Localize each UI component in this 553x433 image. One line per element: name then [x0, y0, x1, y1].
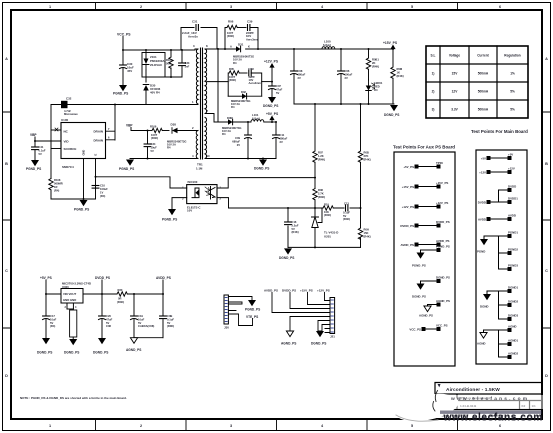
svg-text:Aero3mm: Aero3mm — [246, 37, 259, 41]
svg-text:C17: C17 — [50, 314, 55, 318]
svg-text:B: B — [545, 162, 548, 166]
svg-text:2K: 2K — [372, 61, 375, 65]
ground DGND_PS C17 — [37, 338, 52, 355]
regulation table — [426, 46, 528, 118]
svg-text:J30: J30 — [224, 326, 229, 330]
svg-text:(R4K): (R4K) — [227, 34, 234, 38]
resistor R06 snubber — [224, 20, 246, 51]
svg-text:3): 3) — [432, 108, 435, 112]
ground DGND_PS row3 — [254, 160, 269, 171]
svg-text:AVDD: AVDD — [508, 214, 516, 218]
svg-text:(R4K): (R4K) — [318, 195, 325, 199]
svg-text:Test Points For Main Board: Test Points For Main Board — [471, 129, 528, 134]
wire J21 agnd — [290, 317, 330, 332]
svg-text:PGND2: PGND2 — [508, 248, 518, 252]
svg-text:+12V: +12V — [508, 167, 515, 171]
frame zone ticks right — [542, 112, 551, 328]
node +12V_PS flag — [264, 60, 279, 68]
svg-text:R0H: R0H — [364, 228, 369, 232]
wire U100 left line — [50, 105, 52, 200]
svg-text:DGND_PS: DGND_PS — [279, 256, 294, 260]
svg-text:TP00: TP00 — [436, 161, 443, 165]
svg-text:DVDD_PS: DVDD_PS — [436, 220, 450, 224]
svg-text:C06: C06 — [345, 69, 350, 73]
svg-text:1.2K: 1.2K — [318, 154, 324, 158]
test point AGND main — [477, 325, 519, 360]
ferrite bead regulator gnd — [67, 309, 77, 339]
svg-text:ISO100: ISO100 — [188, 180, 198, 184]
frame zone letters right — [545, 57, 548, 378]
node DVDD_PS — [95, 276, 110, 294]
svg-text:D31: D31 — [238, 43, 244, 47]
svg-text:www.elecfans.com: www.elecfans.com — [443, 413, 543, 424]
wire J30 pin1 to pgnd — [228, 297, 252, 301]
svg-text:D0M: D0M — [227, 116, 233, 120]
wire secondary rail1 +15V — [207, 48, 393, 50]
resistor R100 clamp — [166, 49, 173, 78]
regulator U300 MIC5200 — [61, 282, 91, 310]
svg-text:3: 3 — [230, 5, 232, 9]
svg-text:C39: C39 — [247, 20, 253, 24]
resistor R0H — [358, 228, 370, 240]
svg-text:DGND_PS: DGND_PS — [254, 167, 269, 171]
svg-text:10uF: 10uF — [151, 146, 158, 150]
svg-text:(R4K): (R4K) — [343, 217, 350, 221]
svg-text:AGND1: AGND1 — [508, 339, 519, 343]
node +12V_PS J21 — [317, 288, 330, 300]
svg-text:B: B — [5, 162, 8, 166]
node DVDD_PS J21 — [282, 288, 330, 308]
svg-text:Regulation: Regulation — [504, 54, 521, 58]
svg-text:VCC_PS: VCC_PS — [436, 324, 448, 328]
svg-text:5V: 5V — [167, 321, 170, 325]
node +15V_PS flag — [383, 41, 398, 49]
capacitor C20 — [99, 294, 113, 338]
svg-text:500mA: 500mA — [478, 72, 489, 76]
svg-text:C0M: C0M — [248, 67, 254, 71]
frame zone letters left — [5, 57, 8, 378]
test point DGND main — [480, 286, 519, 322]
svg-text:3: 3 — [230, 424, 232, 428]
svg-text:C32: C32 — [66, 97, 72, 101]
capacitor C33 clamp — [179, 49, 190, 77]
transformer TR1 — [192, 44, 210, 171]
capacitor C0B avdd — [160, 294, 175, 338]
svg-text:DGND1: DGND1 — [508, 286, 519, 290]
svg-text:E: E — [94, 154, 98, 156]
svg-text:DVDD1: DVDD1 — [508, 197, 518, 201]
svg-text:5: 5 — [411, 5, 413, 9]
wire VCC rail to primary — [123, 49, 195, 51]
svg-text:5%: 5% — [510, 90, 515, 94]
test point DGND_PS aux — [412, 276, 450, 299]
wire clamp bottom — [146, 76, 182, 78]
svg-text:10uF: 10uF — [138, 317, 145, 321]
svg-text:C0B: C0B — [167, 314, 172, 318]
svg-text:(R4K): (R4K) — [397, 74, 404, 78]
svg-text:+12V_PS: +12V_PS — [264, 60, 279, 64]
ground PGND_PS opto — [162, 209, 177, 222]
svg-text:(R4): (R4) — [100, 194, 105, 198]
node +15V_PS J21 — [300, 288, 330, 304]
wire opto cathode to ground — [172, 198, 187, 209]
shunt regulator U201 TL431 — [312, 208, 339, 247]
svg-text:(R4K): (R4K) — [324, 213, 331, 217]
resistor R07 — [313, 151, 325, 163]
svg-text:2: 2 — [140, 424, 142, 428]
node VCC_PS — [117, 33, 131, 51]
wire comp ground rail — [288, 246, 361, 248]
svg-text:27K: 27K — [364, 154, 369, 158]
svg-text:PGND_PS: PGND_PS — [245, 308, 260, 312]
test point DVDD_PS aux — [400, 220, 449, 228]
svg-text:U100: U100 — [61, 118, 69, 122]
svg-text:6.8uH: 6.8uH — [323, 43, 331, 47]
svg-text:(R4K): (R4K) — [292, 230, 299, 234]
svg-text:AVDD_PS: AVDD_PS — [436, 239, 450, 243]
svg-text:C: C — [545, 269, 548, 273]
svg-text:10: 10 — [207, 154, 211, 158]
svg-text:1V: 1V — [100, 191, 103, 195]
svg-text:C10: C10 — [100, 184, 105, 188]
svg-text:AVDD: AVDD — [478, 217, 486, 221]
ground PGND_PS under U100 — [74, 198, 89, 212]
test point AVDD main — [478, 214, 516, 222]
svg-text:R10: R10 — [324, 202, 329, 206]
resistor R05 snubber2 — [228, 67, 247, 96]
svg-text:560MR: 560MR — [54, 182, 63, 186]
node +5V_PS flag — [266, 112, 279, 123]
svg-text:AGND_PS: AGND_PS — [126, 348, 141, 352]
svg-text:1:1M: 1:1M — [196, 167, 203, 171]
svg-text:DRAIN: DRAIN — [94, 138, 104, 142]
watermark swoosh — [393, 389, 543, 426]
svg-text:GND: GND — [82, 150, 86, 156]
svg-text:R08: R08 — [318, 188, 323, 192]
ground DGND_PS C20 — [93, 338, 108, 355]
svg-text:A: A — [230, 45, 232, 49]
svg-text:DGND_PS: DGND_PS — [436, 276, 450, 280]
svg-text:Current: Current — [477, 54, 489, 58]
svg-text:DRAIN: DRAIN — [94, 129, 104, 133]
svg-text:DVDD: DVDD — [478, 200, 486, 204]
svg-text:C19: C19 — [138, 314, 143, 318]
svg-text:DGND3: DGND3 — [508, 314, 519, 318]
svg-text:10uF: 10uF — [50, 317, 57, 321]
svg-text:20-DVAC: 20-DVAC — [150, 63, 163, 67]
frame zone ticks bottom — [96, 419, 458, 431]
diode D31 MBR520 — [230, 43, 254, 65]
test point AVDD_PS aux — [401, 239, 450, 247]
svg-text:R4: R4 — [222, 132, 226, 136]
svg-text:(R4K): (R4K) — [151, 136, 158, 140]
svg-text:AGND_PS: AGND_PS — [419, 314, 433, 318]
svg-text:(R0K): (R0K) — [167, 324, 174, 328]
wire row3 ground rail — [207, 158, 276, 160]
test point +12V main — [479, 167, 515, 175]
svg-text:GND GND: GND GND — [63, 298, 76, 302]
frame zone numbers bottom — [49, 424, 501, 428]
svg-text:R4: R4 — [167, 146, 171, 150]
svg-text:2.7K: 2.7K — [318, 191, 324, 195]
capacitor C07 — [269, 82, 283, 97]
test point +12V_PS aux — [402, 201, 449, 209]
ground AGND_PS regulator — [126, 338, 141, 352]
svg-text:K: K — [248, 45, 250, 49]
wire drain line — [51, 104, 195, 106]
svg-text:VBP: VBP — [30, 133, 37, 137]
svg-text:15V: 15V — [452, 72, 459, 76]
wire secondary ground rail — [294, 103, 394, 105]
svg-text:2: 2 — [140, 5, 142, 9]
svg-text:6.8uH: 6.8uH — [252, 116, 260, 120]
resistor R0M — [391, 48, 404, 104]
svg-text:R06: R06 — [228, 20, 234, 24]
wire secondary return vertical — [217, 48, 219, 122]
svg-text:PGND3: PGND3 — [508, 264, 518, 268]
svg-text:0R: 0R — [118, 296, 121, 300]
svg-text:PGND_PS: PGND_PS — [412, 264, 426, 268]
svg-text:DGND_PS: DGND_PS — [412, 295, 426, 299]
svg-text:AGND2: AGND2 — [508, 352, 519, 356]
wire row2 tap — [207, 81, 228, 83]
wire regulator rail — [45, 293, 164, 295]
svg-text:2V: 2V — [298, 76, 301, 80]
svg-text:DVDD_PS: DVDD_PS — [95, 276, 110, 280]
frame zone ticks left — [3, 112, 12, 328]
svg-text:+5V_PS: +5V_PS — [403, 165, 414, 169]
svg-text:AGND_PS: AGND_PS — [281, 342, 296, 346]
svg-text:500mA: 500mA — [478, 108, 489, 112]
capacitor C10 100uF — [92, 184, 108, 199]
LED LED01 — [366, 80, 383, 104]
svg-text:(R4K): (R4K) — [229, 78, 236, 82]
node VBP bias — [126, 124, 148, 131]
svg-text:+15V_PS: +15V_PS — [383, 41, 398, 45]
wire U100 NC stub — [51, 128, 61, 131]
ground DGND_PS regulator — [64, 339, 79, 355]
svg-text:R0B: R0B — [364, 151, 369, 155]
frame zone ticks top — [96, 3, 458, 11]
svg-text:+12V: +12V — [479, 170, 486, 174]
wire feedback divider line R07 — [314, 104, 316, 217]
svg-text:5V: 5V — [39, 152, 42, 156]
svg-text:C34: C34 — [151, 142, 156, 146]
svg-text:LED01: LED01 — [374, 81, 383, 85]
svg-text:C13: C13 — [344, 201, 349, 205]
capacitor C13 comp — [343, 201, 350, 221]
svg-text:+15V_PS: +15V_PS — [436, 181, 448, 185]
svg-text:(R4): (R4) — [50, 324, 55, 328]
svg-text:680uF: 680uF — [280, 136, 288, 140]
svg-text:RED: RED — [374, 84, 380, 88]
svg-text:C41: C41 — [39, 145, 44, 149]
node AVDD_PS — [156, 276, 171, 294]
svg-text:R4: R4 — [231, 105, 235, 109]
svg-text:+12V_PS: +12V_PS — [317, 288, 330, 292]
svg-text:6: 6 — [499, 424, 501, 428]
ground PGND_PS at C41 — [26, 160, 41, 171]
svg-text:+12V_PS: +12V_PS — [436, 201, 448, 205]
svg-text:40V R4: 40V R4 — [150, 91, 160, 95]
capacitor C39 snubber — [246, 20, 259, 51]
svg-text:45V: 45V — [127, 69, 132, 73]
svg-text:(R4): (R4) — [54, 189, 59, 193]
svg-text:10V: 10V — [187, 209, 192, 213]
svg-text:A: A — [545, 57, 548, 61]
resistor R20 — [117, 288, 127, 304]
test point box aux — [394, 152, 455, 366]
svg-text:0.1uF: 0.1uF — [167, 317, 174, 321]
svg-text:1nF: 1nF — [185, 65, 190, 69]
connector J21 — [330, 298, 335, 339]
TVS Z101 P6KE200A — [142, 49, 165, 77]
capacitor C41 — [32, 140, 46, 160]
wire J30 pins tied — [228, 302, 242, 311]
svg-text:AVDD_PS: AVDD_PS — [401, 243, 415, 247]
svg-text:DVDD_PS: DVDD_PS — [282, 288, 296, 292]
svg-text:Test Points For Aux PS Board: Test Points For Aux PS Board — [393, 145, 455, 150]
wire opto collector rail — [217, 178, 315, 188]
diode D38 — [167, 123, 195, 150]
svg-text:R100: R100 — [166, 58, 173, 62]
capacitor C09 — [232, 121, 251, 159]
test point AGND_PS aux — [419, 299, 450, 318]
svg-text:1R: 1R — [54, 185, 57, 189]
svg-text:+15V_PS: +15V_PS — [300, 288, 313, 292]
svg-text:6: 6 — [499, 5, 501, 9]
svg-text:CAEDA(C08): CAEDA(C08) — [138, 324, 154, 328]
frame zone numbers top — [49, 5, 501, 9]
svg-text:PGND: PGND — [477, 250, 485, 254]
optocoupler ISO100 — [182, 180, 222, 213]
svg-text:(R4K): (R4K) — [372, 64, 379, 68]
svg-text:47uF: 47uF — [106, 317, 113, 321]
resistor R106 — [147, 125, 170, 141]
capacitor C34 bias — [144, 131, 157, 159]
ground PGND_PS at VCC cap — [113, 85, 128, 96]
svg-text:PGND_PS: PGND_PS — [74, 208, 89, 212]
wire bias return rail — [130, 158, 195, 160]
svg-text:C20: C20 — [106, 314, 111, 318]
svg-text:5V: 5V — [50, 321, 53, 325]
diode D0M row3 — [222, 116, 251, 136]
connector J30 — [224, 295, 229, 330]
svg-text:DGND_PS: DGND_PS — [93, 351, 108, 355]
inductor L100 — [321, 39, 336, 49]
svg-text:680uF: 680uF — [232, 139, 240, 143]
svg-text:AVDD_PS: AVDD_PS — [264, 288, 278, 292]
svg-text:PGND_PS: PGND_PS — [26, 167, 41, 171]
capacitor C32 series — [61, 97, 78, 117]
svg-text:Microwave: Microwave — [64, 112, 78, 116]
svg-text:Airconditioner - 1.5KW: Airconditioner - 1.5KW — [446, 387, 500, 393]
svg-text:C08: C08 — [298, 69, 303, 73]
svg-text:R20: R20 — [118, 288, 123, 292]
svg-text:D38: D38 — [171, 123, 177, 127]
svg-text:DGND_PS: DGND_PS — [64, 351, 79, 355]
ground DGND_PS row2 — [263, 97, 278, 108]
wire U100 SOURCE stub — [51, 148, 61, 150]
svg-text:PGND_PS: PGND_PS — [119, 167, 134, 171]
svg-text:Aero3mm: Aero3mm — [249, 81, 262, 85]
svg-text:+5V: +5V — [481, 156, 486, 160]
ground DGND_PS J21 — [311, 331, 326, 346]
svg-text:2V: 2V — [280, 140, 283, 144]
svg-text:R108: R108 — [54, 178, 61, 182]
svg-text:+5V: +5V — [508, 153, 513, 157]
svg-text:680uF: 680uF — [298, 72, 306, 76]
capacitor C06 — [338, 48, 353, 104]
svg-text:1): 1) — [432, 72, 435, 76]
wire row3 tap — [207, 114, 228, 123]
svg-text:100uF: 100uF — [100, 187, 108, 191]
ground PGND_PS bias — [119, 160, 134, 172]
wire row2 output — [262, 68, 273, 83]
test point PGND_PS aux — [412, 245, 450, 268]
resistor R10 — [323, 202, 333, 217]
svg-text:1%: 1% — [510, 72, 515, 76]
svg-text:(R4K): (R4K) — [318, 157, 325, 161]
svg-text:VBP: VBP — [126, 124, 133, 128]
svg-text:D: D — [545, 374, 548, 378]
svg-text:NOTE : PGND_DS & DGND_DS are s: NOTE : PGND_DS & DGND_DS are shorted wit… — [20, 396, 127, 400]
capacitor C17 input — [43, 294, 57, 338]
svg-text:(R4K): (R4K) — [364, 157, 371, 161]
svg-text:C07: C07 — [276, 84, 281, 88]
svg-text:PGND_PS: PGND_PS — [436, 245, 450, 249]
capacitor C30 — [120, 49, 134, 85]
svg-text:VCC_PS: VCC_PS — [117, 33, 131, 37]
svg-text:C11: C11 — [280, 133, 285, 137]
svg-text:15K: 15K — [364, 231, 369, 235]
capacitor C16 — [285, 207, 299, 247]
svg-text:0.1uF: 0.1uF — [39, 149, 46, 153]
svg-text:S.L: S.L — [431, 54, 436, 58]
wire feedback line to opto — [95, 176, 187, 188]
svg-text:VTE_PS: VTE_PS — [246, 315, 258, 319]
svg-text:12V: 12V — [452, 90, 459, 94]
svg-text:DGND: DGND — [480, 305, 489, 309]
title block — [435, 383, 542, 420]
svg-text:5V: 5V — [151, 149, 154, 153]
svg-text:100uF: 100uF — [345, 72, 353, 76]
svg-text:(R4K): (R4K) — [364, 234, 371, 238]
capacitor C08 — [291, 48, 306, 104]
wire agnd rail — [134, 337, 163, 339]
svg-text:AGND: AGND — [477, 342, 486, 346]
node +5V_PS regulator input — [40, 276, 52, 294]
svg-text:50K: 50K — [166, 62, 171, 66]
svg-text:R0M: R0M — [397, 67, 403, 71]
svg-text:VID: VID — [64, 139, 70, 143]
svg-text:PGND1: PGND1 — [508, 231, 518, 235]
resistor R0B1 — [366, 48, 379, 80]
capacitor C11 — [273, 121, 288, 159]
svg-text:U201: U201 — [324, 234, 331, 238]
svg-text:5V: 5V — [138, 321, 141, 325]
watermark text www.elecfans.com — [440, 396, 543, 424]
svg-text:+5V_PS: +5V_PS — [40, 276, 52, 280]
svg-text:5%: 5% — [510, 108, 515, 112]
svg-text:C16: C16 — [292, 220, 297, 224]
svg-text:VIN VOUT: VIN VOUT — [63, 292, 77, 296]
svg-text:5V: 5V — [276, 91, 279, 95]
svg-text:AGND_PS: AGND_PS — [436, 299, 450, 303]
svg-text:Aero3x: Aero3x — [188, 35, 198, 39]
svg-text:D: D — [5, 374, 8, 378]
wire U100 bottom rail — [51, 159, 96, 200]
